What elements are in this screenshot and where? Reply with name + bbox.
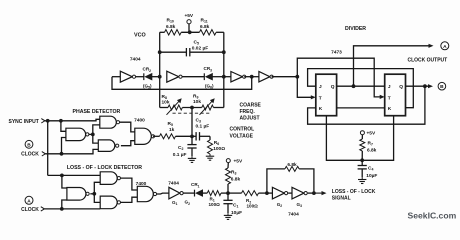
- inverter G7 buffer: [224, 76, 231, 78]
- resistor R7 6.8k: [361, 135, 363, 139]
- svg-text:6.8k: 6.8k: [231, 177, 241, 183]
- capacitor C3 0.1uF: [192, 135, 196, 137]
- svg-text:LOSS - OF - LOCK: LOSS - OF - LOCK: [332, 189, 376, 195]
- wire CR1 to R1: [203, 192, 208, 194]
- svg-text:SeekIC.com: SeekIC.com: [408, 210, 457, 220]
- node C1 R3: [226, 191, 230, 195]
- svg-text:7404: 7404: [130, 56, 141, 62]
- nand gate LOL bottom: [100, 196, 117, 209]
- svg-text:1k: 1k: [169, 127, 175, 133]
- svg-text:0.1 µF: 0.1 µF: [196, 123, 210, 129]
- wire to LOL bottom gate: [94, 194, 100, 203]
- wire CR2 to node: [152, 76, 160, 78]
- resistor R4 6.8k feedback: [267, 169, 285, 193]
- nand gate PD bottom: [98, 140, 115, 152]
- nand gate PD input 7400: [66, 128, 86, 140]
- svg-text:10µF: 10µF: [366, 173, 377, 179]
- svg-text:CONTROL: CONTROL: [230, 127, 255, 133]
- svg-text:+5V: +5V: [184, 13, 193, 19]
- svg-text:DIVIDER: DIVIDER: [345, 26, 366, 32]
- node control voltage: [190, 135, 194, 139]
- inverter G6 7404: [167, 71, 179, 82]
- svg-text:K: K: [319, 106, 323, 112]
- svg-text:K: K: [388, 106, 392, 112]
- node LOL g1 out: [92, 192, 96, 196]
- nand gate LOL input: [67, 188, 86, 201]
- node B clock: [60, 152, 64, 156]
- node G2 input: [265, 191, 269, 195]
- wire G2 to G3: [288, 192, 292, 194]
- wire LOL output to G1: [157, 192, 169, 195]
- wire clock to FF1 T: [297, 77, 311, 98]
- nand gate LOL top: [100, 172, 117, 185]
- nand gate LOL output 7400: [137, 186, 153, 201]
- wire Q2bar wrap to J1: [308, 69, 414, 108]
- node C5 left: [158, 50, 162, 54]
- svg-text:Q: Q: [399, 84, 403, 90]
- svg-text:Q: Q: [331, 84, 335, 90]
- wire G1 to CR1: [183, 192, 194, 194]
- inverter G8 buffer: [252, 76, 259, 78]
- ground C1: [227, 213, 229, 215]
- +5V supply R3: [226, 159, 230, 163]
- wire to PD bottom gate: [93, 134, 99, 143]
- wire Q1 to J2: [337, 85, 385, 87]
- ground R6: [209, 154, 211, 156]
- wire R1 to node: [221, 192, 228, 194]
- node sync B: [59, 119, 63, 123]
- wire to PD top gate: [93, 125, 100, 134]
- wire PD bottom to output gate: [121, 141, 135, 146]
- node PD g1 out: [91, 133, 95, 137]
- svg-text:B: B: [27, 142, 31, 148]
- wire ganged dashed link: [173, 112, 210, 114]
- wire LOL sync line: [48, 174, 100, 176]
- node LOL signal: [312, 191, 316, 195]
- svg-text:100Ω: 100Ω: [213, 146, 225, 152]
- svg-text:7400: 7400: [134, 118, 145, 124]
- arrow LOSS-OF-LOCK SIGNAL: [314, 192, 323, 194]
- terminal A circle: [25, 196, 33, 204]
- wire Q1bar to K2: [337, 107, 385, 109]
- svg-text:6.8k: 6.8k: [367, 148, 377, 154]
- wire VCO feedback loop: [112, 77, 252, 90]
- svg-text:10k: 10k: [162, 99, 170, 105]
- wire G6 out to CR3: [182, 76, 204, 78]
- wire LOL top to output gate: [121, 178, 138, 190]
- inverter G1: [169, 187, 180, 199]
- wire LOL g1 out: [90, 193, 94, 195]
- svg-text:LOSS - OF - LOCK DETECTOR: LOSS - OF - LOCK DETECTOR: [67, 165, 142, 171]
- node diode row right rail: [222, 75, 226, 79]
- svg-text:0.02 µF: 0.02 µF: [192, 46, 208, 52]
- wire sync down to LOL: [47, 121, 49, 176]
- svg-text:+5V: +5V: [367, 131, 376, 137]
- svg-text:100Ω: 100Ω: [209, 202, 221, 207]
- capacitor C2 0.1uF shunt: [191, 136, 193, 144]
- svg-text:B: B: [440, 84, 444, 90]
- wire Q2 to B output: [406, 85, 430, 87]
- wire PD top to output gate: [120, 122, 135, 132]
- svg-text:PHASE DETECTOR: PHASE DETECTOR: [73, 109, 121, 115]
- wire Q2 wrap to K1: [308, 86, 425, 124]
- flip-flop U1b 7473: [385, 74, 406, 116]
- svg-text:ADJUST: ADJUST: [240, 115, 260, 121]
- svg-text:100Ω: 100Ω: [247, 203, 259, 208]
- svg-text:T: T: [388, 95, 391, 101]
- wire sync input: [45, 119, 100, 121]
- svg-text:COARSE: COARSE: [240, 102, 262, 108]
- wire PD output to R5: [153, 135, 160, 137]
- svg-text:CLOCK OUTPUT: CLOCK OUTPUT: [408, 57, 448, 63]
- wire B to PD gate1: [62, 138, 66, 154]
- nand gate PD top: [100, 116, 117, 128]
- ground C2: [191, 156, 193, 158]
- flip-flop U1a 7473: [316, 74, 337, 116]
- capacitor C1 10uF: [227, 193, 229, 200]
- resistor R10 6.8k: [165, 30, 182, 35]
- svg-text:T: T: [319, 95, 322, 101]
- wire G3 to output node: [308, 192, 314, 194]
- diode CR3: [203, 73, 205, 80]
- resistor R11 6.8k: [199, 30, 216, 35]
- wire top rail: [160, 31, 165, 33]
- resistor R2 100ohm: [242, 191, 259, 196]
- node sync A: [46, 119, 50, 123]
- potentiometer R8 10k: [168, 105, 182, 110]
- svg-text:7473: 7473: [331, 49, 342, 55]
- wire left rail: [159, 32, 161, 107]
- node top rail junction: [188, 30, 192, 34]
- wire clock to FF2 T: [297, 58, 380, 97]
- wire R2 to node: [259, 192, 267, 194]
- connector B clock: [42, 152, 46, 156]
- svg-text:CLOCK: CLOCK: [21, 207, 39, 213]
- ground C4: [361, 177, 363, 179]
- wire PD g1 out: [89, 133, 93, 135]
- svg-text:10µF: 10µF: [231, 210, 242, 216]
- node pot wiper center: [190, 106, 194, 110]
- diode CR2: [143, 73, 145, 80]
- svg-text:J: J: [319, 84, 322, 90]
- node Q2: [423, 84, 427, 88]
- wire sync to PD gate1: [61, 121, 66, 132]
- resistor R5 1k: [160, 134, 176, 139]
- wire FF bottom pins rail: [326, 116, 393, 161]
- inverter G2: [267, 192, 273, 194]
- svg-text:VOLTAGE: VOLTAGE: [230, 133, 254, 139]
- node divider clock: [295, 75, 299, 79]
- wire right rail: [223, 32, 225, 107]
- wire LOL bottom to output gate: [121, 197, 138, 202]
- diode CR1: [194, 190, 196, 197]
- wire wiper to control node: [191, 108, 193, 137]
- svg-text:+5V: +5V: [234, 158, 243, 164]
- wire G8 to divider clock node: [272, 76, 298, 78]
- connector SYNC INPUT: [41, 119, 45, 123]
- node diode row left rail: [158, 75, 162, 79]
- +5V supply R7: [360, 131, 364, 135]
- svg-text:J: J: [388, 84, 391, 90]
- svg-text:A: A: [443, 44, 447, 50]
- wire R5 to node: [176, 135, 193, 137]
- resistor R1 100ohm: [207, 191, 221, 196]
- svg-text:FREQ.: FREQ.: [240, 109, 256, 115]
- svg-text:SIGNAL: SIGNAL: [332, 196, 351, 202]
- node LOL sync: [60, 174, 64, 178]
- nand gate PD output 7400: [135, 128, 151, 144]
- node A clock: [60, 207, 64, 211]
- terminal B circle: [25, 140, 33, 148]
- svg-text:10k: 10k: [193, 99, 201, 105]
- terminal A output circle: [441, 42, 449, 50]
- wire A clock: [44, 208, 100, 210]
- wire Q1 to clock output A: [354, 46, 430, 86]
- node C5 right: [222, 50, 226, 54]
- inverter G3: [292, 187, 304, 199]
- wire G5 out to CR2: [136, 76, 144, 78]
- svg-text:A: A: [27, 198, 31, 204]
- connector A clock: [41, 207, 45, 211]
- op... inverter G5 7404: [112, 76, 120, 78]
- svg-text:SYNC INPUT: SYNC INPUT: [9, 119, 39, 125]
- node feedback tap: [250, 75, 254, 79]
- svg-text:VCO: VCO: [134, 33, 146, 39]
- node R7 C4: [360, 158, 364, 162]
- wire G7 to feedback node: [244, 76, 252, 78]
- resistor R3 6.8k: [227, 163, 229, 168]
- resistor R6 100ohm: [209, 136, 211, 140]
- svg-text:CLOCK: CLOCK: [21, 152, 39, 158]
- svg-text:6.8k: 6.8k: [287, 162, 297, 168]
- svg-text:7404: 7404: [168, 180, 179, 186]
- wire to LOL top gate: [94, 182, 100, 194]
- wire CR3 to node: [212, 76, 224, 78]
- wire pot row: [160, 107, 168, 109]
- wire B clock: [45, 149, 98, 153]
- wire LOL sync to gate1: [62, 175, 67, 188]
- capacitor C5 0.02uF row: [160, 51, 187, 53]
- svg-text:7404: 7404: [288, 212, 299, 218]
- wire A to LOL gate1: [62, 200, 67, 209]
- svg-text:6.8k: 6.8k: [200, 24, 210, 30]
- svg-text:6.8k: 6.8k: [166, 24, 176, 30]
- terminal B output circle: [438, 82, 446, 90]
- potentiometer R9 10k: [202, 105, 214, 110]
- capacitor C4 10uF: [361, 160, 363, 165]
- svg-text:0.1 µF: 0.1 µF: [173, 152, 187, 158]
- node Q1: [352, 84, 356, 88]
